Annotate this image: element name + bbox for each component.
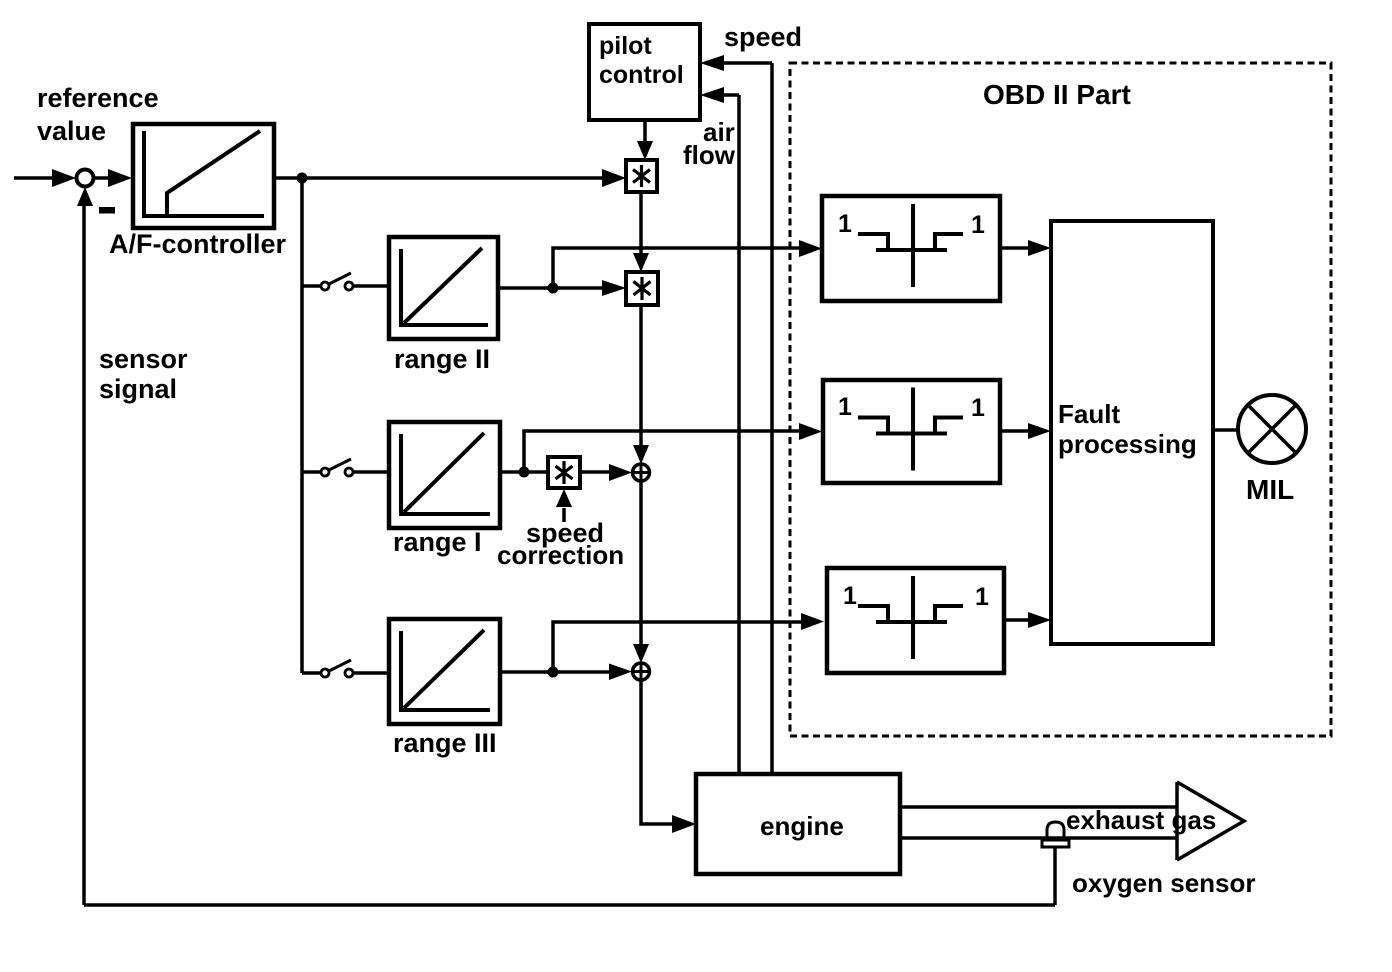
block: comparator 3 (hysteresis)	[827, 568, 1004, 673]
A/F-controller curve	[167, 131, 260, 215]
range III graph axes	[401, 631, 490, 710]
exhaust pipe lines	[900, 807, 1177, 838]
node: summing point SP1	[633, 464, 650, 481]
block: multiplier M2	[626, 272, 658, 305]
svg-text:oxygen sensor: oxygen sensor	[1072, 868, 1256, 898]
arrowhead into A/F-controller	[108, 169, 132, 187]
arrowhead into fault processing (middle)	[1028, 423, 1051, 439]
range I graph axes	[401, 434, 490, 514]
svg-text:control: control	[599, 61, 684, 89]
arrowhead into comparator 1	[799, 240, 822, 257]
wire: range I output	[500, 470, 548, 474]
wire: M2 down to summing node SP1	[639, 305, 643, 446]
switch S1 (range I)	[302, 459, 389, 476]
range II graph axes	[401, 249, 488, 325]
switch S3 (range III)	[302, 660, 389, 677]
switch S2 (range II)	[302, 273, 389, 290]
svg-text:correction: correction	[497, 540, 624, 570]
arrowhead into M1 top	[637, 141, 653, 160]
svg-text:1: 1	[971, 394, 985, 422]
node: summing junction (reference - sensor)	[77, 170, 94, 187]
svg-text:sensor: sensor	[99, 344, 188, 374]
svg-text:processing: processing	[1058, 429, 1197, 459]
wire: speed feedback to pilot control	[722, 63, 772, 774]
speed correction asterisk	[556, 461, 573, 484]
svg-text:value: value	[37, 116, 106, 146]
arrowhead into M2 left	[602, 280, 626, 296]
svg-text:1: 1	[838, 393, 852, 421]
block: range II	[389, 237, 498, 339]
arrowhead speed into pilot control	[700, 55, 724, 71]
block: comparator 1 (hysteresis)	[822, 196, 1000, 301]
arrowhead into summing node	[52, 169, 76, 187]
MIL indicator lamp	[1238, 395, 1306, 463]
arrowhead into fault processing (top)	[1028, 240, 1051, 256]
svg-text:engine: engine	[760, 811, 844, 841]
block: engine	[696, 774, 900, 874]
svg-text:speed: speed	[724, 22, 802, 52]
arrowhead into comparator 3	[801, 613, 824, 630]
svg-text:reference: reference	[37, 83, 159, 113]
svg-text:range III: range III	[393, 728, 497, 758]
oxygen sensor symbol	[1047, 822, 1064, 840]
node: junction on controller output	[297, 173, 308, 184]
arrowhead into SP1 left	[609, 464, 632, 481]
wire: SP2 down and into engine	[641, 680, 673, 824]
exhaust gas arrow outline	[1177, 782, 1244, 860]
wire: M1 to M2	[639, 192, 643, 254]
M1 asterisk	[633, 165, 650, 187]
block: range I	[389, 422, 500, 528]
svg-text:1: 1	[971, 211, 985, 239]
wire: pilot control to multiplier M1	[643, 120, 647, 142]
wire: range I branch up to comparator 2	[524, 431, 800, 472]
wire: range III output	[500, 670, 610, 674]
block: multiplier M1	[626, 160, 657, 192]
wire: fault processing to MIL	[1213, 428, 1239, 432]
arrowhead into M2 top	[633, 253, 649, 272]
wire: oxygen sensor signal down	[1053, 847, 1057, 905]
arrowhead air flow into pilot control	[700, 87, 724, 103]
svg-text:pilot: pilot	[599, 32, 652, 60]
block: range III	[389, 619, 500, 724]
arrowhead into SP2 left	[609, 664, 632, 681]
wire: A/F-controller output to multiplier M1	[274, 176, 604, 180]
svg-text:1: 1	[975, 583, 989, 611]
node: summing point SP2	[633, 663, 650, 680]
M2 asterisk	[634, 277, 651, 300]
wire: comparator 3 to fault processing	[1004, 618, 1029, 622]
minus sign at summing junction	[99, 207, 115, 214]
arrowhead into SP2 top	[633, 644, 649, 663]
block: speed correction multiplier	[548, 457, 580, 488]
A/F-controller graph axes	[144, 131, 264, 216]
wire: range II branch up to comparator 1	[553, 248, 800, 288]
svg-text:range II: range II	[394, 344, 490, 374]
wire: stub into speed correction bottom	[562, 508, 566, 522]
arrowhead into summing node bottom	[77, 187, 93, 206]
svg-text:1: 1	[843, 582, 857, 610]
wire: comparator 1 to fault processing	[1000, 246, 1029, 250]
svg-text:Fault: Fault	[1058, 399, 1120, 429]
wire: range III branch up to comparator 3	[553, 622, 802, 672]
arrowhead into SP1 top	[633, 445, 649, 464]
node: junction range III output	[548, 667, 559, 678]
node: junction range I output	[519, 467, 530, 478]
wire: trunk down from junction	[300, 178, 304, 673]
wire: range II output	[498, 286, 604, 290]
wire: reference value input	[14, 176, 53, 180]
svg-text:OBD II Part: OBD II Part	[983, 79, 1131, 110]
svg-text:range I: range I	[393, 527, 482, 557]
wire: summing node to A/F-controller	[94, 176, 109, 180]
arrowhead into speed correction	[556, 489, 572, 507]
wire: SP1 down to SP2	[639, 481, 643, 645]
svg-text:1: 1	[838, 210, 852, 238]
wire: sensor signal feedback to summing node	[84, 205, 1055, 905]
arrowhead into engine	[672, 815, 696, 833]
range I graph diagonal	[404, 433, 484, 512]
block: Fault processing	[1051, 221, 1213, 644]
block: pilot control	[589, 24, 700, 120]
svg-text:exhaust gas: exhaust gas	[1066, 805, 1216, 835]
arrowhead into multiplier M1	[602, 169, 626, 187]
wire: air flow feedback to pilot control	[722, 95, 739, 774]
arrowhead into fault processing (bottom)	[1028, 612, 1051, 628]
node: junction range II output	[548, 283, 559, 294]
block: A/F-controller	[133, 124, 274, 228]
svg-text:A/F-controller: A/F-controller	[109, 229, 286, 259]
wire: speed correction to SP1	[580, 470, 610, 474]
svg-text:flow: flow	[683, 140, 736, 170]
arrowhead into comparator 2	[799, 423, 822, 440]
wire: comparator 2 to fault processing	[1000, 429, 1029, 433]
range II graph diagonal	[404, 248, 482, 323]
svg-text:signal: signal	[99, 374, 177, 404]
svg-text:MIL: MIL	[1246, 474, 1294, 505]
OBD II dashed boundary	[790, 63, 1331, 736]
block: comparator 2 (hysteresis)	[823, 380, 1000, 483]
range III graph diagonal	[404, 630, 484, 708]
